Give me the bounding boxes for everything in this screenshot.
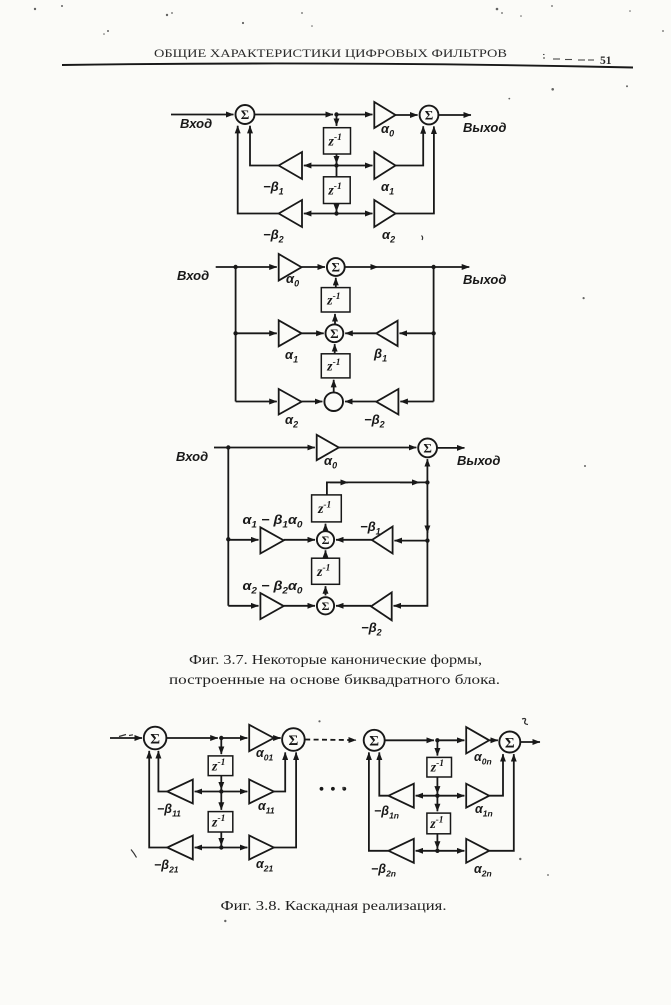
delay z1n d4 bbox=[427, 757, 452, 777]
wire -b1 to S1 d4 bbox=[379, 752, 388, 795]
wire to top node d4 bbox=[166, 737, 217, 739]
wire mid to delay2 d4 bbox=[220, 792, 222, 810]
left mid node d2 bbox=[233, 331, 237, 335]
wire to b2 d2 bbox=[400, 401, 433, 403]
output node d2 bbox=[431, 265, 435, 269]
wire a0 to S1 d2 bbox=[302, 266, 326, 268]
amplifier -b2 d3 bbox=[371, 592, 392, 620]
amplifier -b1n d4 bbox=[389, 784, 414, 808]
wire to output node d2 bbox=[378, 266, 434, 268]
wire node1 to a0 d1 bbox=[337, 114, 373, 116]
node1 d1 bbox=[334, 112, 338, 116]
output wire d4 bbox=[520, 741, 540, 743]
amplifier a2 d2 bbox=[279, 389, 302, 415]
bottom node 1n d4 bbox=[435, 849, 439, 853]
summing node S1 d1 bbox=[236, 105, 255, 124]
wire a0 to S1 d3 bbox=[339, 447, 417, 449]
right vertical d2 bbox=[433, 267, 435, 402]
svg-text:Σ: Σ bbox=[369, 734, 379, 750]
amplifier a2 d1 bbox=[374, 200, 395, 227]
svg-text:Выход: Выход bbox=[457, 453, 500, 468]
wire mid to -b1 d4 bbox=[195, 791, 222, 793]
wire S1 to node1 d1 bbox=[255, 114, 334, 116]
wire w1 to S1 d3 bbox=[426, 459, 428, 482]
wire S1 right d2 bbox=[345, 266, 378, 268]
arrow on w1 wire d3 bbox=[400, 481, 420, 483]
amplifier a2-b2a0 d3 bbox=[260, 593, 283, 619]
svg-text:Σ: Σ bbox=[322, 599, 330, 613]
delay z1 d1 bbox=[324, 128, 351, 154]
wire bot to a2 d4 bbox=[437, 850, 464, 852]
delay z2 d2 bbox=[321, 354, 350, 378]
wire -b1 to S1 d4 bbox=[158, 751, 167, 792]
amplifier a21 d4 bbox=[249, 836, 274, 860]
amplifier -b2 d2 bbox=[376, 389, 398, 415]
delay z2 d3 bbox=[312, 558, 340, 584]
wire to a2 d2 bbox=[236, 401, 277, 403]
wire delay2 to node3 d1 bbox=[336, 204, 338, 212]
wire b2 to S3 d3 bbox=[336, 605, 371, 607]
wire -b2 to S1 d4 bbox=[149, 751, 167, 848]
scan noise tick on d4 input bbox=[119, 735, 133, 737]
wire a0 to S2 d1 bbox=[396, 114, 418, 116]
svg-text:Фиг. 3.7. Некоторые каноническ: Фиг. 3.7. Некоторые канонические формы, bbox=[189, 653, 482, 668]
svg-text:Σ: Σ bbox=[423, 441, 432, 456]
feedback vertical lower d3 bbox=[394, 541, 428, 606]
wire S2 to delay1 d2 bbox=[334, 314, 336, 324]
top node 1n d4 bbox=[435, 738, 439, 742]
svg-text:Выход: Выход bbox=[463, 272, 506, 287]
delay z1 d2 bbox=[321, 288, 350, 312]
amplifier a01 d4 bbox=[249, 725, 274, 751]
svg-text:51: 51 bbox=[600, 55, 612, 67]
wire to a0 amp d4 bbox=[437, 739, 464, 741]
summing node S1R d4 bbox=[282, 728, 305, 751]
svg-text:Фиг. 3.8. Каскадная реализация: Фиг. 3.8. Каскадная реализация. bbox=[221, 899, 447, 914]
amplifier a1 d2 bbox=[279, 320, 302, 346]
amplifier a1 d1 bbox=[374, 152, 395, 179]
wire delay2 to bottom node d4 bbox=[220, 832, 222, 846]
node w1 d3 bbox=[425, 480, 429, 484]
wire delay1 to node2 d1 bbox=[336, 154, 338, 164]
left mid node d3 bbox=[226, 537, 230, 541]
wire S3 to delay2 d3 bbox=[325, 586, 327, 595]
wire node2 to a1 d1 bbox=[337, 165, 373, 167]
svg-text:Σ: Σ bbox=[322, 533, 330, 547]
wire bot to a2 d4 bbox=[221, 847, 247, 849]
wire to a1 d2 bbox=[236, 332, 277, 334]
wire delay1 to mid node d4 bbox=[220, 776, 222, 790]
arrow on w1 wire d3 bbox=[330, 481, 348, 483]
wire b1 to S2 d2 bbox=[345, 332, 376, 334]
header rule bbox=[62, 63, 633, 67]
wire node to delay1 d4 bbox=[436, 740, 438, 755]
feedback node d3 bbox=[425, 538, 429, 542]
wire bot to -b2 d4 bbox=[195, 847, 222, 849]
wire node3 to b2 d1 bbox=[304, 213, 337, 215]
node3 d1 bbox=[334, 211, 338, 215]
output wire d3 bbox=[437, 447, 465, 449]
wire delay1 to S1 d2 bbox=[335, 278, 337, 288]
wire to amp2 d3 bbox=[228, 605, 258, 607]
bottom node 11 d4 bbox=[219, 845, 223, 849]
wire a1 to S2 d4 bbox=[274, 752, 285, 791]
delay z2 d1 bbox=[324, 177, 351, 204]
summing node S2 d3 bbox=[317, 531, 334, 548]
wire mid to a1 d4 bbox=[221, 791, 247, 793]
svg-text:Σ: Σ bbox=[505, 735, 515, 751]
summing node S2 d1 bbox=[420, 106, 439, 125]
wire b1 to S1 d1 bbox=[250, 126, 279, 166]
top node 11 d4 bbox=[219, 736, 223, 740]
wire node to delay1 d4 bbox=[220, 738, 222, 754]
amplifier -b21 d4 bbox=[167, 836, 193, 860]
wire a1 to S2 d4 bbox=[489, 754, 503, 796]
scan noise curl left of -b21 d4 bbox=[131, 850, 137, 858]
amplifier -b1 d3 bbox=[372, 527, 393, 554]
wire S2 to delay1 d3 bbox=[325, 524, 327, 532]
svg-text:Σ: Σ bbox=[425, 108, 434, 123]
amplifier b1 d2 bbox=[376, 321, 397, 346]
amplifier -b2 d1 bbox=[279, 200, 302, 227]
wire a0 to S2 d4 bbox=[489, 739, 498, 741]
amplifier -b11 d4 bbox=[167, 780, 193, 804]
amplifier -b1 d1 bbox=[279, 152, 302, 179]
left vertical d2 bbox=[235, 267, 237, 402]
svg-text:Σ: Σ bbox=[150, 731, 160, 747]
summing node S3 d3 bbox=[317, 597, 334, 614]
wire delay1 to mid node d4 bbox=[436, 777, 438, 794]
amplifier a0 d2 bbox=[279, 254, 302, 281]
wire to amp1 d3 bbox=[228, 539, 258, 541]
summing node S1R d4 bbox=[499, 732, 520, 753]
input wire d3 bbox=[214, 447, 228, 449]
wire to top node d4 bbox=[385, 739, 434, 741]
svg-text:Σ: Σ bbox=[241, 107, 250, 122]
wire a0 to S2 d4 bbox=[274, 737, 281, 739]
wire node1 to delay1 d1 bbox=[336, 115, 338, 126]
wire amp2 to S3 d3 bbox=[284, 605, 315, 607]
svg-text:Σ: Σ bbox=[330, 326, 339, 341]
wire -b2 to S1 d4 bbox=[369, 752, 389, 850]
wire delay2 to bottom node d4 bbox=[436, 834, 438, 849]
wire to a0 d3 bbox=[228, 447, 315, 449]
wire amp1 to S2 d3 bbox=[284, 539, 315, 541]
wire node3 to a2 d1 bbox=[337, 213, 373, 215]
wire delay2 to S2 d2 bbox=[334, 344, 336, 354]
amplifier a0 d3 bbox=[317, 435, 339, 460]
svg-text:Вход: Вход bbox=[176, 449, 208, 464]
input wire d1 bbox=[171, 114, 234, 116]
amplifier a0 d1 bbox=[374, 102, 395, 128]
amplifier a2n d4 bbox=[466, 839, 489, 863]
delay z1 d3 bbox=[312, 495, 342, 522]
delay z11 d4 bbox=[208, 756, 233, 776]
summing node S1L d4 bbox=[364, 730, 385, 751]
wire b2 to C3 d2 bbox=[345, 401, 376, 403]
mid node 1n d4 bbox=[435, 794, 439, 798]
mid node 11 d4 bbox=[219, 789, 223, 793]
wire a2 to C3 d2 bbox=[302, 401, 323, 403]
node2 d1 bbox=[334, 163, 338, 167]
dashed wire between sections d4 bbox=[305, 739, 356, 742]
amplifier -b2n d4 bbox=[389, 839, 414, 863]
svg-text:построенные на основе биквадра: построенные на основе биквадратного блок… bbox=[169, 673, 500, 688]
summing node S1 d2 bbox=[327, 258, 345, 276]
svg-text:ОБЩИЕ ХАРАКТЕРИСТИКИ ЦИФРОВЫХ: ОБЩИЕ ХАРАКТЕРИСТИКИ ЦИФРОВЫХ ФИЛЬТРОВ bbox=[154, 48, 507, 60]
summing node S2 d2 bbox=[326, 324, 344, 342]
svg-text:Σ: Σ bbox=[288, 733, 298, 749]
feedback vertical upper d3 bbox=[426, 482, 428, 540]
wire a2 to S2 d4 bbox=[274, 752, 296, 847]
wire mid to a1 d4 bbox=[437, 795, 464, 797]
svg-text:Вход: Вход bbox=[180, 116, 212, 131]
delay z2n d4 bbox=[427, 813, 451, 834]
amplifier a0n d4 bbox=[466, 727, 489, 753]
scan noise curl top right d4 bbox=[522, 719, 528, 725]
input node d2 bbox=[233, 265, 237, 269]
wire delay1 to w1 d3 bbox=[327, 482, 426, 495]
summing node S1L d4 bbox=[144, 727, 167, 750]
input wire d4 bbox=[110, 737, 142, 739]
delay z21 d4 bbox=[208, 812, 233, 832]
wire to a0 amp d4 bbox=[221, 737, 247, 739]
wire mid to -b1 d4 bbox=[416, 795, 438, 797]
wire bot to -b2 d4 bbox=[416, 850, 438, 852]
amplifier a1-b1a0 d3 bbox=[260, 527, 283, 553]
wire to b1 d2 bbox=[400, 332, 434, 334]
output wire d2 bbox=[434, 266, 470, 268]
wire mid to delay2 d4 bbox=[436, 796, 438, 812]
amplifier a1n d4 bbox=[466, 784, 489, 808]
input node d3 bbox=[226, 445, 230, 449]
svg-text:Вход: Вход bbox=[177, 268, 209, 283]
pickoff circle C3 d2 bbox=[324, 392, 343, 411]
wire to -b1 d3 bbox=[394, 540, 427, 542]
wire a1 to S2 d1 bbox=[396, 126, 424, 165]
wire delay2 to S2 d3 bbox=[325, 550, 327, 556]
input wire d2 bbox=[216, 266, 277, 268]
arrow on feedback d3 bbox=[426, 510, 428, 533]
wire node2 to b1 d1 bbox=[304, 165, 337, 167]
wire a1 to S2 d2 bbox=[302, 332, 324, 334]
wire b2 to S1 d1 bbox=[238, 126, 279, 214]
wire a2 to S2 d4 bbox=[489, 754, 514, 851]
wire C3 to delay2 d2 bbox=[333, 380, 335, 393]
ellipsis dots d4 bbox=[320, 787, 324, 791]
amplifier a11 d4 bbox=[249, 780, 274, 804]
svg-text:Σ: Σ bbox=[332, 260, 341, 275]
right mid node d2 bbox=[431, 331, 435, 335]
wire b1 to S2 d3 bbox=[336, 539, 372, 541]
summing node S1 d3 bbox=[418, 439, 437, 458]
scan noise dashes near page number bbox=[543, 55, 594, 61]
left vertical d3 bbox=[227, 448, 229, 606]
svg-text:Выход: Выход bbox=[463, 120, 506, 135]
output wire d1 bbox=[438, 114, 471, 116]
scan noise comma near a2 d1 bbox=[422, 236, 423, 241]
wire node2 to delay2 d1 bbox=[336, 166, 338, 177]
wire a2 to S2 d1 bbox=[396, 126, 434, 213]
